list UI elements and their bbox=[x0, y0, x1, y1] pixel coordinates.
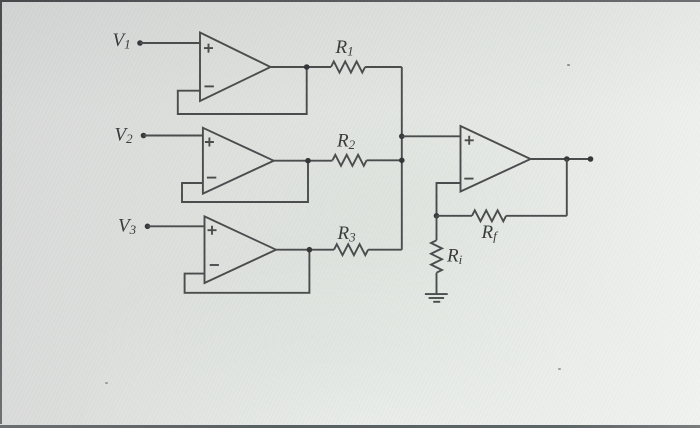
wire feedback node to Ri bbox=[436, 216, 438, 241]
node V3 input terminal bbox=[145, 224, 151, 230]
node U4 output junction bbox=[564, 156, 570, 162]
wire R2 to summing bus bbox=[367, 159, 402, 161]
node U3 output junction bbox=[307, 247, 313, 253]
wire V3 input to U3 noninverting input bbox=[148, 225, 205, 227]
wire V2 input to U2 noninverting input bbox=[144, 135, 203, 137]
resistor Ri bbox=[431, 240, 442, 272]
resistor Rf bbox=[472, 210, 506, 221]
op-amp U3 bbox=[205, 216, 277, 283]
svg-text:V3: V3 bbox=[118, 216, 137, 238]
svg-text:R3: R3 bbox=[337, 223, 357, 245]
svg-text:Ri: Ri bbox=[446, 246, 463, 268]
wire U4 output bbox=[531, 158, 591, 160]
wire U2 output to R2 bbox=[274, 160, 333, 162]
wire bus to U4 noninverting input bbox=[402, 135, 461, 137]
ground bbox=[425, 294, 448, 302]
wire feedback node to Rf bbox=[437, 215, 473, 217]
svg-text:R2: R2 bbox=[336, 131, 356, 153]
wire V1 input to U1 noninverting input bbox=[140, 42, 200, 44]
wire Ri to ground bbox=[436, 273, 438, 294]
svg-text:V2: V2 bbox=[115, 125, 134, 147]
wire Rf to output leg bbox=[506, 215, 567, 217]
resistor R3 bbox=[334, 244, 368, 255]
op-amp U2 bbox=[203, 128, 274, 194]
svg-text:R1: R1 bbox=[335, 37, 354, 59]
wire U1 output to R1 bbox=[271, 66, 332, 68]
node feedback junction bbox=[434, 213, 440, 219]
node V2 input terminal bbox=[141, 133, 147, 139]
wire U1 feedback loop (output to inverting input) bbox=[178, 67, 307, 114]
node bus tap to U4 noninverting input bbox=[399, 134, 405, 140]
svg-text:Rf: Rf bbox=[481, 222, 500, 244]
node bus junction with R2 bbox=[399, 158, 405, 164]
node output terminal bbox=[588, 156, 594, 162]
resistor R2 bbox=[333, 155, 367, 166]
wire output down to Rf bbox=[566, 159, 568, 216]
wire summing bus vertical bbox=[401, 67, 403, 250]
wire R3 to summing bus bbox=[368, 249, 402, 251]
op-amp U1 bbox=[200, 33, 271, 102]
wire U4 inverting input to feedback node bbox=[437, 183, 461, 216]
svg-text:V1: V1 bbox=[113, 30, 131, 52]
resistor R1 bbox=[331, 62, 365, 73]
op-amp U4 bbox=[461, 126, 531, 192]
node U2 output junction bbox=[305, 158, 311, 164]
wire U3 output to R3 bbox=[276, 249, 334, 251]
wire U3 feedback loop bbox=[185, 250, 310, 293]
node U1 output junction bbox=[304, 64, 310, 70]
node V1 input terminal bbox=[137, 40, 143, 46]
wire U2 feedback loop bbox=[182, 161, 308, 202]
wire R1 to summing bus bbox=[365, 66, 402, 68]
